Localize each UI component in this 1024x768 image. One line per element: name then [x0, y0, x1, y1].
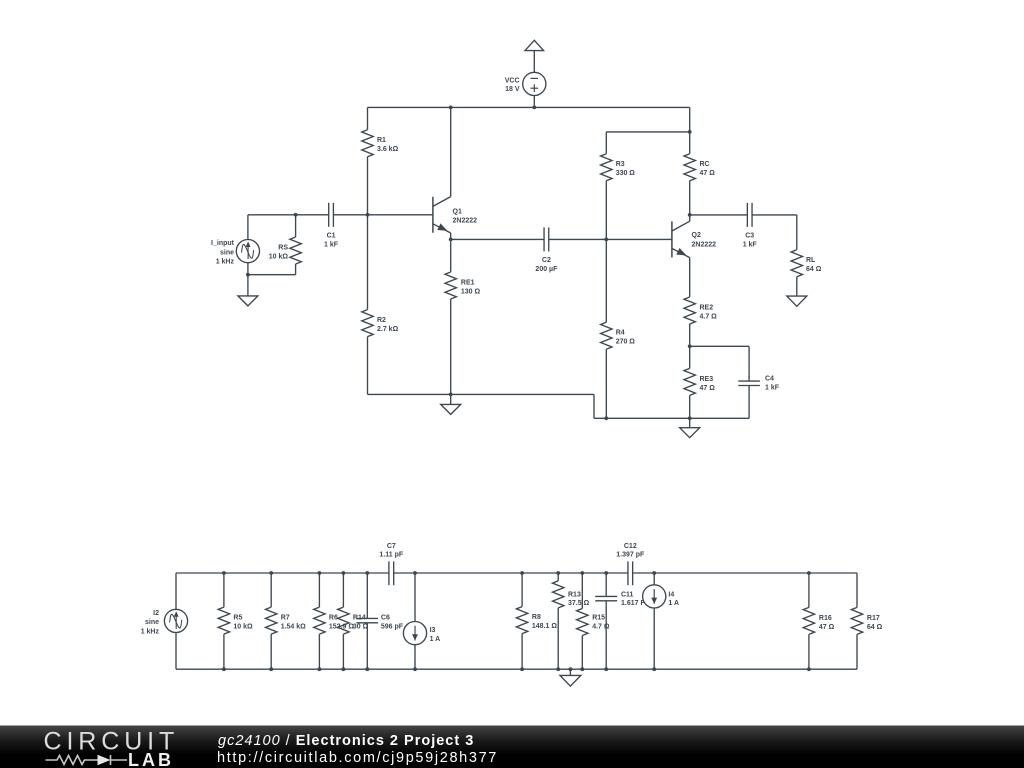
svg-text:R4: R4: [616, 330, 625, 337]
svg-text:Q1: Q1: [453, 209, 462, 216]
svg-text:47 Ω: 47 Ω: [700, 170, 716, 177]
svg-text:330 Ω: 330 Ω: [616, 170, 636, 177]
svg-text:10 kΩ: 10 kΩ: [233, 624, 253, 631]
svg-text:4.7 Ω: 4.7 Ω: [700, 314, 718, 321]
svg-text:596 pF: 596 pF: [381, 624, 404, 631]
svg-text:R2: R2: [377, 317, 386, 324]
svg-text:C11: C11: [621, 592, 634, 599]
svg-text:R7: R7: [281, 615, 290, 622]
svg-text:1.54 kΩ: 1.54 kΩ: [281, 624, 306, 631]
svg-text:C1: C1: [327, 232, 336, 239]
svg-text:Q2: Q2: [692, 232, 701, 239]
svg-text:C2: C2: [542, 257, 551, 264]
svg-text:C7: C7: [387, 543, 396, 550]
svg-text:C12: C12: [624, 543, 637, 550]
svg-text:I3: I3: [430, 627, 436, 634]
svg-text:RE2: RE2: [700, 305, 714, 312]
svg-text:C6: C6: [381, 615, 390, 622]
svg-text:R8: R8: [532, 614, 541, 621]
svg-text:R3: R3: [616, 161, 625, 168]
svg-text:http://circuitlab.com/cj9p59j2: http://circuitlab.com/cj9p59j28h377: [217, 750, 498, 766]
svg-text:4.7 Ω: 4.7 Ω: [592, 624, 610, 631]
svg-text:1 kHz: 1 kHz: [141, 628, 160, 635]
svg-text:RL: RL: [806, 257, 816, 264]
svg-text:RE3: RE3: [700, 376, 714, 383]
svg-text:2N2222: 2N2222: [692, 241, 717, 248]
svg-text:152.9 Ω: 152.9 Ω: [329, 624, 354, 631]
svg-text:270 Ω: 270 Ω: [616, 339, 636, 346]
svg-text:R17: R17: [867, 615, 880, 622]
svg-text:sine: sine: [220, 249, 234, 256]
svg-text:200 µF: 200 µF: [535, 266, 558, 273]
svg-text:I_input: I_input: [211, 240, 235, 247]
svg-text:R6: R6: [329, 615, 338, 622]
svg-text:1 A: 1 A: [430, 636, 441, 643]
svg-text:R13: R13: [568, 592, 581, 599]
svg-text:148.1 Ω: 148.1 Ω: [532, 623, 557, 630]
svg-text:37.5 Ω: 37.5 Ω: [568, 600, 590, 607]
svg-text:R16: R16: [819, 615, 832, 622]
svg-text:3.6 kΩ: 3.6 kΩ: [377, 146, 399, 153]
svg-text:I2: I2: [153, 610, 159, 617]
svg-text:R14: R14: [353, 615, 366, 622]
svg-text:130 Ω: 130 Ω: [461, 289, 481, 296]
svg-text:I4: I4: [668, 592, 674, 599]
svg-text:sine: sine: [145, 619, 159, 626]
svg-text:18 V: 18 V: [505, 86, 520, 93]
svg-text:gc24100 / Electronics 2 Projec: gc24100 / Electronics 2 Project 3: [218, 733, 474, 749]
svg-text:RC: RC: [700, 161, 710, 168]
svg-text:64 Ω: 64 Ω: [806, 266, 822, 273]
svg-text:1 kHz: 1 kHz: [216, 259, 235, 266]
svg-text:1.397 pF: 1.397 pF: [616, 551, 645, 558]
svg-text:1.11 pF: 1.11 pF: [379, 551, 403, 558]
svg-text:1.617 F: 1.617 F: [621, 600, 645, 607]
svg-text:R15: R15: [592, 615, 605, 622]
svg-text:RE1: RE1: [461, 280, 475, 287]
svg-text:1 kF: 1 kF: [765, 385, 780, 392]
svg-text:2.7 kΩ: 2.7 kΩ: [377, 326, 399, 333]
svg-text:47 Ω: 47 Ω: [700, 385, 716, 392]
svg-text:30 Ω: 30 Ω: [353, 624, 369, 631]
svg-text:1 kF: 1 kF: [743, 241, 758, 248]
svg-text:C4: C4: [765, 376, 774, 383]
svg-text:2N2222: 2N2222: [453, 218, 478, 225]
svg-text:47 Ω: 47 Ω: [819, 624, 835, 631]
svg-text:R1: R1: [377, 137, 386, 144]
svg-text:1 kF: 1 kF: [324, 241, 339, 248]
svg-text:64 Ω: 64 Ω: [867, 624, 883, 631]
svg-text:10 kΩ: 10 kΩ: [269, 254, 289, 261]
svg-text:R5: R5: [233, 615, 242, 622]
svg-text:LAB: LAB: [128, 750, 174, 768]
svg-text:1 A: 1 A: [668, 600, 679, 607]
svg-text:RS: RS: [278, 245, 288, 252]
svg-text:VCC: VCC: [505, 78, 520, 85]
svg-text:C3: C3: [745, 232, 754, 239]
